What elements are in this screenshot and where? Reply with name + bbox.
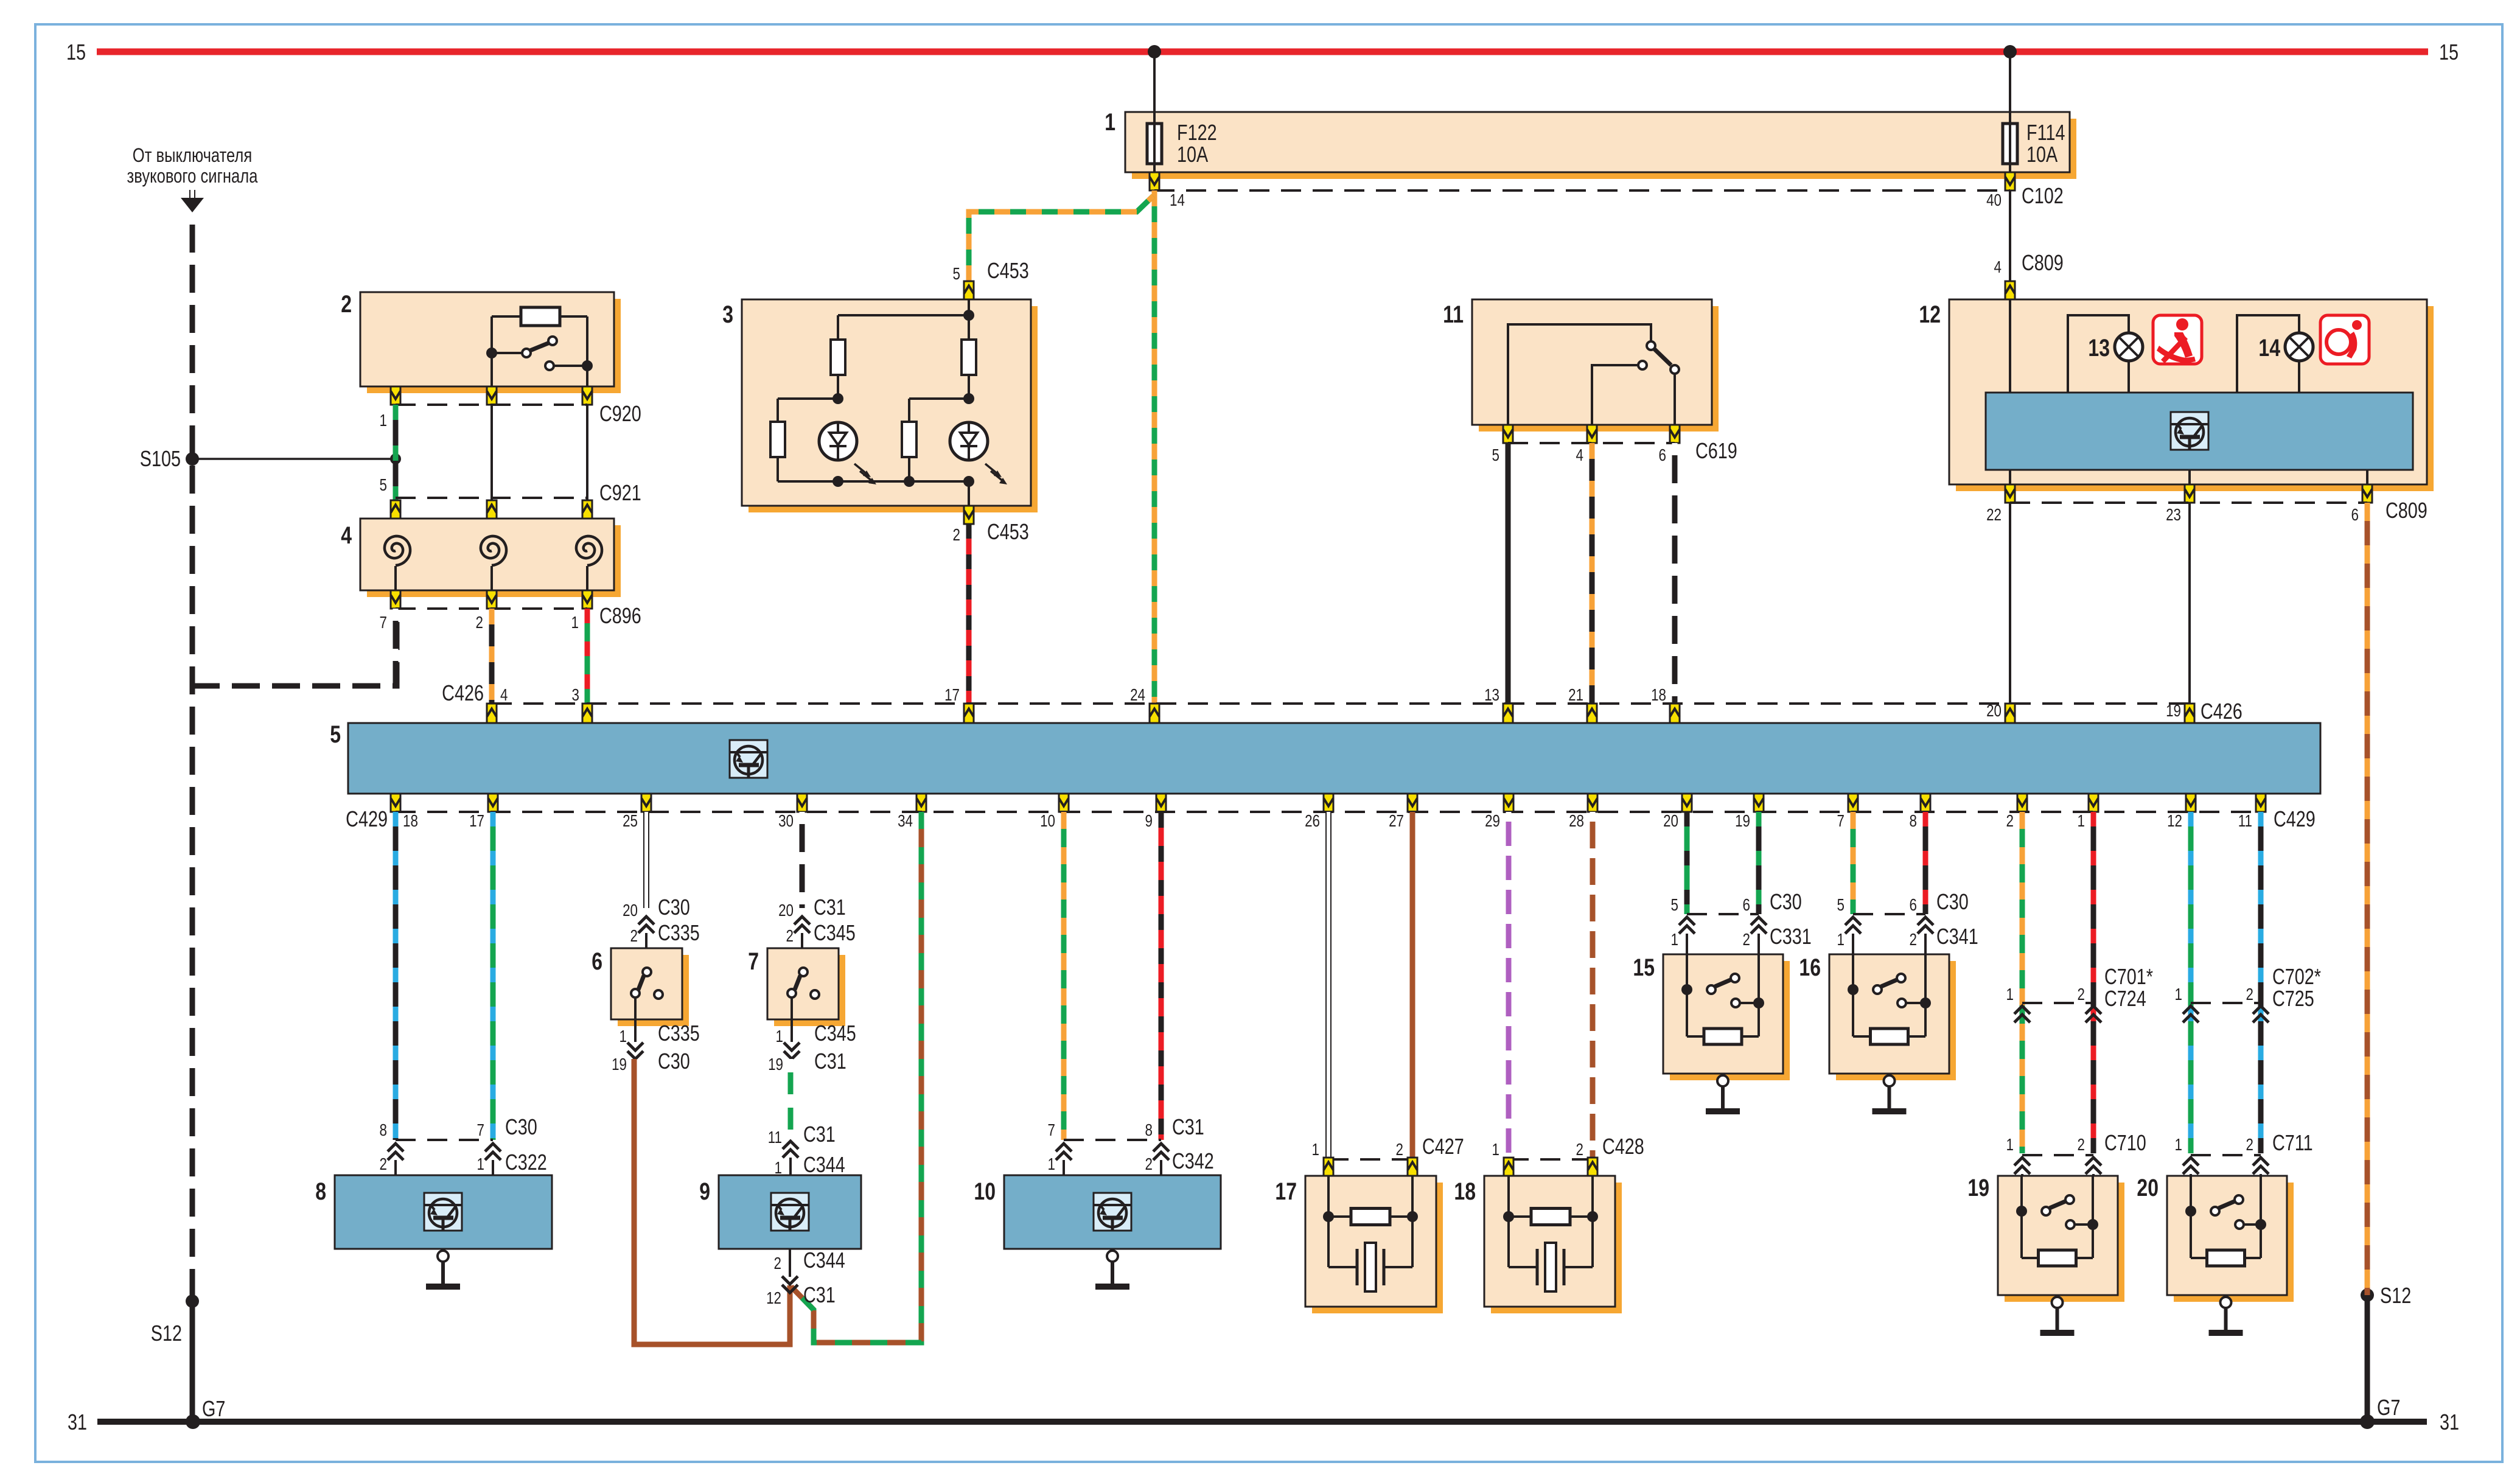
svg-text:8: 8 — [380, 1121, 387, 1140]
svg-text:10A: 10A — [2026, 142, 2058, 167]
svg-text:18: 18 — [1454, 1178, 1476, 1205]
svg-text:4: 4 — [341, 522, 352, 549]
svg-text:S12: S12 — [151, 1321, 182, 1346]
svg-text:8: 8 — [315, 1178, 326, 1205]
svg-text:1: 1 — [620, 1027, 627, 1046]
svg-text:11: 11 — [2238, 812, 2252, 831]
svg-text:15: 15 — [2439, 40, 2459, 65]
svg-text:C453: C453 — [987, 258, 1029, 283]
svg-text:23: 23 — [2166, 506, 2181, 525]
svg-text:G7: G7 — [202, 1396, 225, 1421]
svg-text:13: 13 — [1484, 686, 1499, 705]
svg-text:7: 7 — [748, 948, 759, 975]
svg-text:14: 14 — [1170, 191, 1185, 210]
svg-text:12: 12 — [766, 1289, 781, 1308]
svg-text:C31: C31 — [1172, 1114, 1204, 1139]
svg-text:2: 2 — [786, 927, 794, 946]
svg-text:17: 17 — [469, 812, 484, 831]
svg-text:6: 6 — [1659, 446, 1666, 465]
svg-text:C345: C345 — [814, 1021, 856, 1046]
svg-text:C31: C31 — [803, 1282, 836, 1307]
svg-text:17: 17 — [1275, 1178, 1297, 1205]
svg-text:5: 5 — [953, 265, 960, 284]
svg-text:C30: C30 — [505, 1114, 537, 1139]
svg-text:2: 2 — [630, 927, 638, 946]
svg-text:5: 5 — [1837, 896, 1845, 915]
svg-text:30: 30 — [778, 812, 794, 831]
svg-text:3: 3 — [572, 686, 579, 705]
svg-text:1: 1 — [2175, 985, 2182, 1004]
svg-text:S12: S12 — [2380, 1283, 2411, 1308]
svg-text:C344: C344 — [803, 1152, 845, 1177]
svg-text:20: 20 — [2137, 1174, 2159, 1201]
svg-text:2: 2 — [1743, 931, 1750, 949]
svg-text:C335: C335 — [658, 1021, 700, 1046]
svg-text:C711: C711 — [2272, 1130, 2313, 1155]
svg-text:16: 16 — [1799, 954, 1821, 981]
svg-text:27: 27 — [1389, 812, 1404, 831]
svg-text:24: 24 — [1130, 686, 1145, 705]
svg-text:C921: C921 — [599, 480, 641, 505]
svg-text:2: 2 — [953, 526, 960, 545]
svg-text:18: 18 — [1651, 686, 1666, 705]
svg-text:40: 40 — [1986, 191, 2002, 210]
svg-text:25: 25 — [623, 812, 638, 831]
svg-text:7: 7 — [380, 613, 387, 632]
svg-text:5: 5 — [1671, 896, 1678, 915]
svg-text:C428: C428 — [1602, 1134, 1644, 1159]
svg-text:20: 20 — [1986, 702, 2002, 721]
svg-text:11: 11 — [768, 1128, 782, 1147]
svg-text:5: 5 — [380, 476, 387, 495]
svg-text:29: 29 — [1485, 812, 1500, 831]
svg-text:C429: C429 — [346, 806, 388, 831]
svg-text:19: 19 — [1735, 812, 1750, 831]
svg-text:C619: C619 — [1695, 438, 1737, 463]
svg-text:2: 2 — [341, 290, 352, 318]
svg-text:20: 20 — [778, 901, 794, 920]
svg-text:31: 31 — [68, 1410, 87, 1434]
svg-text:19: 19 — [2166, 702, 2181, 721]
svg-text:5: 5 — [330, 721, 341, 748]
svg-text:1: 1 — [2006, 985, 2014, 1004]
svg-text:C896: C896 — [599, 603, 641, 628]
svg-text:12: 12 — [1919, 301, 1941, 328]
svg-text:звукового сигнала: звукового сигнала — [127, 166, 259, 187]
svg-text:17: 17 — [944, 686, 960, 705]
svg-text:C344: C344 — [803, 1248, 845, 1273]
svg-text:C453: C453 — [987, 519, 1029, 544]
svg-text:C335: C335 — [658, 920, 700, 945]
svg-text:От выключателя: От выключателя — [133, 145, 252, 166]
svg-text:1: 1 — [2006, 1136, 2014, 1155]
svg-text:1: 1 — [1048, 1155, 1055, 1174]
svg-text:21: 21 — [1568, 686, 1583, 705]
svg-text:2: 2 — [2078, 985, 2085, 1004]
svg-text:2: 2 — [476, 613, 483, 632]
svg-text:8: 8 — [1145, 1121, 1153, 1140]
svg-text:6: 6 — [1910, 896, 1917, 915]
svg-text:15: 15 — [1633, 954, 1655, 981]
svg-text:19: 19 — [612, 1055, 627, 1074]
svg-text:9: 9 — [1145, 812, 1153, 831]
svg-text:15: 15 — [66, 40, 86, 65]
svg-text:2: 2 — [2246, 1136, 2253, 1155]
svg-text:14: 14 — [2258, 334, 2280, 362]
svg-text:26: 26 — [1305, 812, 1320, 831]
svg-text:3: 3 — [722, 301, 733, 328]
svg-text:4: 4 — [1576, 446, 1583, 465]
svg-text:9: 9 — [699, 1178, 710, 1205]
svg-text:C725: C725 — [2272, 986, 2314, 1011]
svg-text:C31: C31 — [814, 1049, 846, 1074]
svg-text:C322: C322 — [505, 1150, 547, 1175]
svg-text:10A: 10A — [1177, 142, 1208, 167]
svg-text:31: 31 — [2440, 1410, 2459, 1434]
svg-text:2: 2 — [1396, 1141, 1403, 1159]
svg-text:2: 2 — [1576, 1141, 1583, 1159]
svg-text:C30: C30 — [1936, 889, 1969, 914]
svg-text:7: 7 — [477, 1121, 484, 1140]
svg-text:13: 13 — [2088, 334, 2110, 362]
svg-text:C701*: C701* — [2104, 964, 2153, 989]
svg-text:F122: F122 — [1177, 120, 1217, 145]
svg-text:4: 4 — [1994, 258, 2002, 277]
svg-text:C702*: C702* — [2272, 964, 2321, 989]
svg-text:2: 2 — [774, 1254, 781, 1273]
svg-text:1: 1 — [1312, 1141, 1319, 1159]
svg-text:C809: C809 — [2386, 498, 2428, 523]
svg-text:2: 2 — [1910, 931, 1917, 949]
svg-text:G7: G7 — [2377, 1395, 2400, 1420]
svg-text:C31: C31 — [814, 895, 846, 920]
svg-text:C426: C426 — [442, 680, 484, 705]
svg-text:C331: C331 — [1770, 924, 1812, 949]
svg-text:C102: C102 — [2022, 183, 2064, 208]
svg-text:22: 22 — [1986, 506, 2002, 525]
svg-text:2: 2 — [2078, 1136, 2085, 1155]
svg-text:11: 11 — [1443, 301, 1464, 328]
svg-text:34: 34 — [898, 812, 913, 831]
svg-text:6: 6 — [2351, 506, 2359, 525]
svg-text:1: 1 — [1671, 931, 1678, 949]
svg-text:20: 20 — [623, 901, 638, 920]
svg-text:C426: C426 — [2201, 699, 2243, 724]
svg-text:C710: C710 — [2104, 1130, 2146, 1155]
svg-text:C30: C30 — [658, 1049, 690, 1074]
svg-text:C30: C30 — [658, 895, 690, 920]
svg-text:1: 1 — [380, 411, 387, 430]
svg-text:4: 4 — [500, 686, 508, 705]
svg-text:1: 1 — [571, 613, 579, 632]
svg-text:S105: S105 — [140, 446, 181, 471]
svg-text:C30: C30 — [1770, 889, 1802, 914]
svg-text:5: 5 — [1492, 446, 1499, 465]
svg-text:2: 2 — [1145, 1155, 1153, 1174]
svg-text:1: 1 — [1105, 108, 1115, 136]
svg-text:12: 12 — [2167, 812, 2182, 831]
svg-text:10: 10 — [1040, 812, 1055, 831]
svg-text:8: 8 — [1910, 812, 1917, 831]
svg-text:19: 19 — [768, 1055, 783, 1074]
svg-text:F114: F114 — [2026, 120, 2065, 145]
svg-text:C427: C427 — [1422, 1134, 1464, 1159]
svg-text:2: 2 — [2006, 812, 2014, 831]
svg-text:C342: C342 — [1172, 1148, 1214, 1173]
svg-text:7: 7 — [1837, 812, 1845, 831]
svg-text:6: 6 — [1743, 896, 1750, 915]
svg-text:C345: C345 — [814, 920, 856, 945]
svg-text:1: 1 — [2078, 812, 2085, 831]
svg-text:1: 1 — [1837, 931, 1845, 949]
svg-text:28: 28 — [1569, 812, 1584, 831]
svg-text:7: 7 — [1048, 1121, 1055, 1140]
svg-text:1: 1 — [477, 1155, 484, 1174]
svg-text:18: 18 — [403, 812, 418, 831]
svg-text:C31: C31 — [803, 1122, 836, 1147]
svg-text:C341: C341 — [1936, 924, 1978, 949]
svg-text:C920: C920 — [599, 401, 641, 426]
svg-text:1: 1 — [2175, 1136, 2182, 1155]
svg-text:1: 1 — [776, 1027, 783, 1046]
svg-text:C429: C429 — [2274, 806, 2316, 831]
svg-text:C724: C724 — [2104, 986, 2146, 1011]
svg-text:2: 2 — [380, 1155, 387, 1174]
svg-text:19: 19 — [1967, 1174, 1989, 1201]
svg-text:20: 20 — [1663, 812, 1678, 831]
svg-text:1: 1 — [1492, 1141, 1499, 1159]
svg-text:2: 2 — [2246, 985, 2253, 1004]
svg-text:10: 10 — [974, 1178, 996, 1205]
svg-text:6: 6 — [592, 948, 602, 975]
svg-text:C809: C809 — [2022, 250, 2064, 275]
